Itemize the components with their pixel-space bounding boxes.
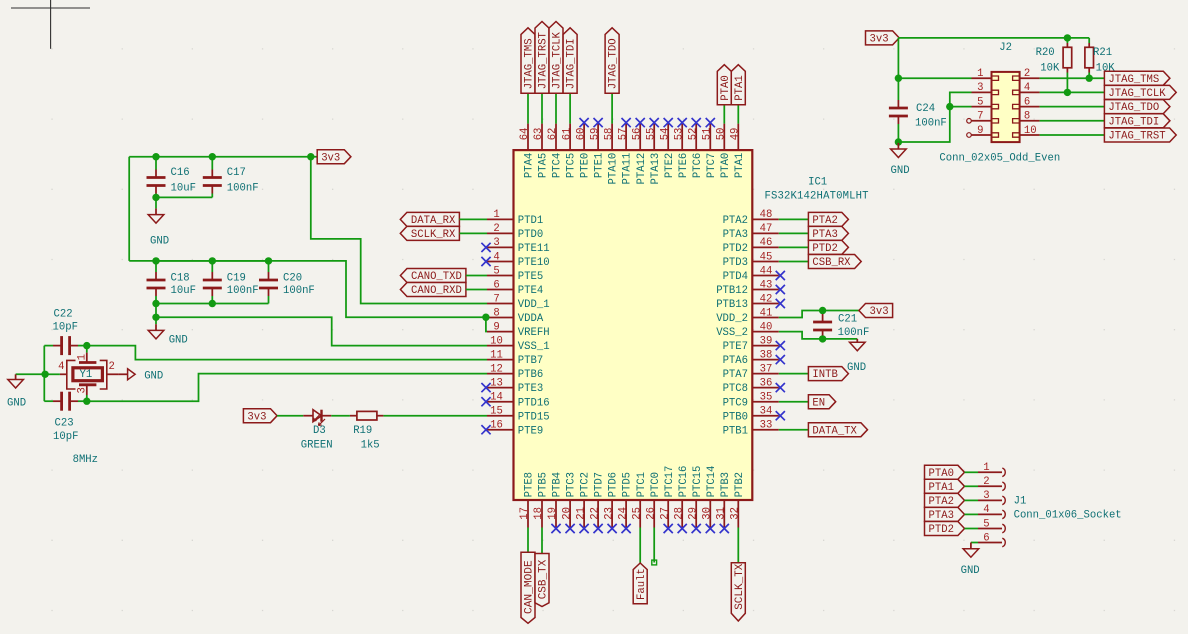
svg-text:PTD5: PTD5 [622,472,634,497]
svg-text:30: 30 [702,507,714,520]
svg-text:50: 50 [716,128,728,141]
svg-text:18: 18 [533,507,545,520]
svg-text:100nF: 100nF [283,285,315,297]
svg-text:10pF: 10pF [53,431,78,443]
svg-text:1: 1 [493,209,499,221]
svg-text:53: 53 [673,128,685,141]
svg-text:3: 3 [983,490,989,502]
svg-text:2: 2 [493,223,499,235]
svg-text:GREEN: GREEN [301,440,333,452]
svg-text:C22: C22 [54,309,73,321]
svg-text:Fault: Fault [636,568,648,600]
svg-text:PTE6: PTE6 [678,153,690,178]
svg-text:63: 63 [533,128,545,141]
svg-text:8MHz: 8MHz [73,454,98,466]
svg-text:36: 36 [760,377,773,389]
svg-text:3v3: 3v3 [870,34,889,46]
svg-text:R20: R20 [1036,47,1055,59]
svg-text:6: 6 [983,532,989,544]
svg-text:28: 28 [673,507,685,520]
svg-text:DATA_RX: DATA_RX [411,215,456,227]
svg-text:2: 2 [1024,68,1030,80]
svg-text:54: 54 [659,128,671,141]
svg-text:20: 20 [561,507,573,520]
svg-text:C17: C17 [227,167,246,179]
svg-text:10: 10 [490,335,503,347]
svg-text:PTE2: PTE2 [664,153,676,178]
svg-text:C23: C23 [55,417,74,429]
svg-text:9: 9 [493,321,499,333]
svg-text:PTD4: PTD4 [723,271,748,283]
svg-text:PTC2: PTC2 [580,472,592,497]
svg-text:PTD3: PTD3 [723,257,748,269]
svg-text:44: 44 [760,265,773,277]
svg-text:C21: C21 [838,313,857,325]
svg-text:62: 62 [547,128,559,141]
svg-text:PTE3: PTE3 [518,383,543,395]
svg-text:31: 31 [716,507,728,520]
svg-text:JTAG_TDI: JTAG_TDI [1108,116,1159,128]
svg-text:PTB4: PTB4 [552,472,564,497]
svg-text:23: 23 [603,507,615,520]
svg-text:GND: GND [169,335,188,347]
svg-text:CANO_RXD: CANO_RXD [411,285,462,297]
svg-text:56: 56 [631,128,643,141]
svg-text:PTB13: PTB13 [716,299,748,311]
svg-text:SCLK_RX: SCLK_RX [411,229,456,241]
svg-text:SCLK_TX: SCLK_TX [734,563,746,610]
svg-text:PTC15: PTC15 [692,466,704,498]
svg-text:PTC6: PTC6 [692,153,704,178]
svg-text:41: 41 [760,307,773,319]
svg-text:PTE11: PTE11 [518,243,550,255]
svg-text:34: 34 [760,406,773,418]
svg-text:PTB7: PTB7 [518,355,543,367]
svg-text:VREFH: VREFH [518,327,550,339]
svg-text:JTAG_TDO: JTAG_TDO [608,38,620,89]
svg-text:2: 2 [983,476,989,488]
svg-text:PTE7: PTE7 [723,341,748,353]
svg-text:17: 17 [519,507,531,520]
svg-text:PTD2: PTD2 [929,524,954,536]
svg-text:JTAG_TMS: JTAG_TMS [524,38,536,89]
svg-text:C19: C19 [227,273,246,285]
svg-text:PTA6: PTA6 [723,355,748,367]
svg-text:PTA0: PTA0 [720,75,732,100]
svg-text:CANO_TXD: CANO_TXD [411,271,462,283]
svg-text:PTC9: PTC9 [723,397,748,409]
svg-text:Conn_01x06_Socket: Conn_01x06_Socket [1014,510,1122,522]
svg-text:PTC16: PTC16 [678,466,690,498]
svg-text:15: 15 [490,406,503,418]
svg-text:PTE9: PTE9 [518,425,543,437]
svg-text:PTA2: PTA2 [929,496,954,508]
svg-text:VDD_2: VDD_2 [716,313,748,325]
svg-text:4: 4 [1024,82,1030,94]
svg-text:JTAG_TDO: JTAG_TDO [1108,102,1159,114]
svg-text:43: 43 [760,279,773,291]
svg-text:60: 60 [575,128,587,141]
svg-text:PTD2: PTD2 [723,243,748,255]
svg-text:10uF: 10uF [171,285,196,297]
svg-text:J1: J1 [1014,496,1027,508]
svg-text:PTB5: PTB5 [538,472,550,497]
svg-text:52: 52 [687,128,699,141]
svg-text:PTA0: PTA0 [720,153,732,178]
svg-text:IC1: IC1 [808,177,827,189]
svg-text:1k5: 1k5 [361,440,380,452]
svg-text:Conn_02x05_Odd_Even: Conn_02x05_Odd_Even [939,152,1060,164]
svg-text:10uF: 10uF [171,182,196,194]
svg-text:10: 10 [1024,125,1037,137]
svg-text:45: 45 [760,251,773,263]
svg-text:PTA3: PTA3 [929,510,954,522]
svg-text:PTD7: PTD7 [594,472,606,497]
svg-text:4: 4 [493,251,499,263]
svg-text:PTC0: PTC0 [650,472,662,497]
svg-text:51: 51 [702,128,714,141]
svg-text:PTC7: PTC7 [706,153,718,178]
svg-text:1: 1 [977,68,983,80]
svg-text:PTA7: PTA7 [723,369,748,381]
svg-text:40: 40 [760,321,773,333]
svg-text:48: 48 [760,209,773,221]
svg-text:2: 2 [109,361,115,373]
svg-text:38: 38 [760,349,773,361]
svg-text:PTE5: PTE5 [518,271,543,283]
svg-text:PTA12: PTA12 [636,153,648,185]
svg-text:58: 58 [603,128,615,141]
svg-text:PTD6: PTD6 [608,472,620,497]
svg-text:16: 16 [490,420,503,432]
svg-text:6: 6 [1024,96,1030,108]
svg-text:PTA13: PTA13 [650,153,662,185]
svg-text:PTA5: PTA5 [538,153,550,178]
svg-text:JTAG_TMS: JTAG_TMS [1108,74,1159,86]
svg-text:55: 55 [645,128,657,141]
svg-text:GND: GND [961,565,980,577]
svg-text:9: 9 [977,125,983,137]
svg-text:DATA_TX: DATA_TX [812,425,857,437]
svg-text:59: 59 [589,128,601,141]
svg-text:PTC17: PTC17 [664,466,676,498]
svg-text:PTE1: PTE1 [594,153,606,178]
svg-text:1: 1 [77,354,89,360]
svg-text:26: 26 [645,507,657,520]
svg-text:8: 8 [493,307,499,319]
svg-text:13: 13 [490,377,503,389]
svg-text:JTAG_TRST: JTAG_TRST [538,32,550,89]
svg-text:VSS_2: VSS_2 [716,327,748,339]
svg-text:27: 27 [659,507,671,520]
svg-text:10pF: 10pF [53,322,78,334]
svg-text:3v3: 3v3 [321,152,340,164]
svg-text:22: 22 [589,507,601,520]
svg-text:3: 3 [493,237,499,249]
svg-text:5: 5 [493,265,499,277]
svg-text:3v3: 3v3 [247,411,266,423]
svg-text:PTB6: PTB6 [518,369,543,381]
svg-text:PTC5: PTC5 [566,153,578,178]
svg-text:C18: C18 [171,273,190,285]
svg-text:33: 33 [760,420,773,432]
svg-text:29: 29 [687,507,699,520]
svg-text:5: 5 [977,96,983,108]
svg-text:GND: GND [847,362,866,374]
svg-text:C24: C24 [916,103,935,115]
svg-text:CAN_MODE: CAN_MODE [524,560,536,614]
svg-text:PTB1: PTB1 [723,425,748,437]
svg-text:PTA1: PTA1 [929,482,954,494]
svg-text:100nF: 100nF [915,118,947,130]
svg-text:11: 11 [490,349,503,361]
svg-text:GND: GND [7,398,26,410]
svg-text:PTD16: PTD16 [518,397,550,409]
svg-text:PTE0: PTE0 [580,153,592,178]
svg-text:FS32K142HAT0MLHT: FS32K142HAT0MLHT [765,191,869,203]
svg-text:VDDA: VDDA [518,313,544,325]
svg-text:25: 25 [631,507,643,520]
svg-text:PTC4: PTC4 [552,153,564,178]
svg-text:PTB12: PTB12 [716,285,748,297]
svg-text:3: 3 [977,82,983,94]
svg-text:JTAG_TDI: JTAG_TDI [566,38,578,89]
svg-text:PTA1: PTA1 [734,75,746,100]
svg-text:CSB_RX: CSB_RX [812,257,851,269]
svg-text:PTA0: PTA0 [929,468,954,480]
svg-text:PTD1: PTD1 [518,215,543,227]
svg-text:PTD2: PTD2 [812,243,837,255]
svg-text:VDD_1: VDD_1 [518,299,550,311]
svg-text:37: 37 [760,363,773,375]
svg-text:100nF: 100nF [227,182,259,194]
svg-text:32: 32 [730,507,742,520]
svg-text:PTE8: PTE8 [524,472,536,497]
svg-text:PTC3: PTC3 [566,472,578,497]
svg-text:JTAG_TCLK: JTAG_TCLK [1108,88,1166,100]
svg-text:1: 1 [983,462,989,474]
svg-text:C16: C16 [171,167,190,179]
svg-text:61: 61 [561,128,573,141]
svg-text:R21: R21 [1093,47,1112,59]
svg-text:14: 14 [490,392,503,404]
svg-text:PTA3: PTA3 [723,229,748,241]
svg-text:3v3: 3v3 [870,306,889,318]
svg-text:5: 5 [983,518,989,530]
svg-text:GND: GND [150,236,169,248]
svg-text:4: 4 [58,361,64,373]
svg-text:EN: EN [812,397,825,409]
svg-text:3: 3 [77,387,89,393]
svg-text:7: 7 [493,293,499,305]
svg-text:10K: 10K [1040,63,1060,75]
svg-text:PTB2: PTB2 [734,472,746,497]
svg-text:46: 46 [760,237,773,249]
svg-text:PTA10: PTA10 [608,153,620,185]
svg-text:Y1: Y1 [80,369,93,381]
svg-text:PTA2: PTA2 [723,215,748,227]
svg-text:PTC14: PTC14 [706,466,718,498]
svg-text:12: 12 [490,363,503,375]
svg-text:42: 42 [760,293,773,305]
svg-text:PTC8: PTC8 [723,383,748,395]
svg-text:100nF: 100nF [838,327,870,339]
svg-text:PTB3: PTB3 [720,472,732,497]
svg-text:PTA4: PTA4 [524,153,536,178]
svg-text:35: 35 [760,392,773,404]
svg-text:6: 6 [493,279,499,291]
svg-text:JTAG_TCLK: JTAG_TCLK [552,31,564,89]
svg-text:D3: D3 [313,425,326,437]
svg-text:JTAG_TRST: JTAG_TRST [1108,131,1165,143]
svg-text:C20: C20 [283,273,302,285]
svg-text:PTA2: PTA2 [812,215,837,227]
svg-text:R19: R19 [353,425,372,437]
svg-text:64: 64 [519,128,531,141]
svg-text:47: 47 [760,223,773,235]
svg-text:4: 4 [983,504,989,516]
svg-text:GND: GND [891,165,910,177]
svg-text:CSB_TX: CSB_TX [538,559,550,599]
svg-text:PTE10: PTE10 [518,257,550,269]
svg-text:PTB0: PTB0 [723,411,748,423]
svg-text:7: 7 [977,111,983,123]
svg-text:PTA1: PTA1 [734,153,746,178]
svg-text:57: 57 [617,128,629,141]
svg-text:19: 19 [547,507,559,520]
svg-text:PTD0: PTD0 [518,229,543,241]
svg-text:J2: J2 [999,42,1012,54]
svg-text:PTE4: PTE4 [518,285,543,297]
svg-text:PTC1: PTC1 [636,472,648,497]
svg-text:PTD15: PTD15 [518,411,550,423]
svg-text:49: 49 [730,128,742,141]
svg-text:VSS_1: VSS_1 [518,341,550,353]
svg-text:39: 39 [760,335,773,347]
svg-text:GND: GND [144,370,163,382]
svg-text:INTB: INTB [812,369,837,381]
svg-text:8: 8 [1024,111,1030,123]
svg-text:24: 24 [617,507,629,520]
svg-text:21: 21 [575,507,587,520]
svg-text:PTA11: PTA11 [622,153,634,185]
svg-text:PTA3: PTA3 [812,229,837,241]
svg-text:100nF: 100nF [227,285,259,297]
